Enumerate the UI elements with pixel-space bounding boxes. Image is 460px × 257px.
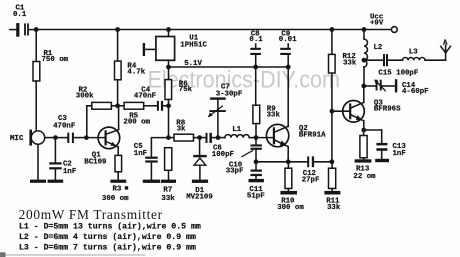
svg-text:27pF: 27pF — [302, 176, 320, 184]
ground (R3) — [110, 180, 126, 183]
svg-text:R7: R7 — [163, 187, 172, 195]
node junction C1/R1 — [34, 27, 39, 32]
scan artifact bottom edge — [0, 252, 146, 257]
resistor R8 — [169, 134, 200, 141]
label R12 value — [343, 53, 357, 67]
node junction L1/R9/C10/Q2 base — [254, 135, 259, 140]
node junction U1/5.1V rail — [166, 65, 171, 70]
svg-text:5.1V: 5.1V — [184, 60, 202, 68]
label C7 value — [216, 84, 243, 99]
node junction C8/R9/5.1V — [253, 65, 258, 70]
wire Q2 emitter down — [287, 147, 289, 162]
resistor R3 — [115, 155, 122, 179]
label R1 value — [42, 50, 69, 64]
wire Q1 emitter down — [117, 147, 119, 156]
watermark Electronics-DIY.com — [148, 67, 341, 94]
resistor R9 — [253, 67, 260, 138]
svg-text:0.1: 0.1 — [249, 36, 263, 44]
node junction R6/row2 — [166, 135, 171, 140]
node junction C10/C11/row3 — [254, 159, 259, 164]
svg-text:BFR96S: BFR96S — [374, 106, 401, 114]
ground (D1) — [192, 180, 208, 183]
label R6 value — [179, 81, 193, 94]
svg-text:33k: 33k — [161, 195, 175, 203]
node junction L2/top rail — [362, 27, 367, 32]
wire Q1 collector up — [118, 106, 120, 130]
label C10 value — [226, 162, 244, 176]
svg-text:C15 100pF: C15 100pF — [378, 69, 418, 77]
svg-text:300 om: 300 om — [277, 204, 304, 212]
label Q1 BC109 — [84, 151, 106, 166]
label C8 value — [249, 31, 263, 45]
label R2 value — [76, 87, 94, 101]
ground (R7) — [161, 180, 176, 183]
label R4 value — [127, 63, 145, 77]
ground (R10) — [280, 191, 297, 195]
svg-text:470nF: 470nF — [134, 93, 156, 101]
node junction L2/C14/Q3 collector — [361, 84, 366, 89]
resistor R2 — [92, 102, 112, 109]
capacitor C4 — [144, 101, 169, 111]
label U1 1PH51C — [180, 35, 207, 50]
svg-text:A: A — [443, 39, 448, 47]
label C11 value — [247, 186, 265, 201]
label C2 value — [63, 161, 76, 176]
resistor R11 — [329, 162, 336, 191]
svg-text:L2: L2 — [374, 44, 383, 52]
svg-text:1nF: 1nF — [63, 168, 76, 176]
node junction U1/top rail — [166, 27, 171, 32]
resistor R1 — [33, 30, 40, 132]
wire top +9V rail — [36, 29, 391, 31]
label C15 value — [378, 69, 418, 77]
wire R2 riser — [87, 106, 92, 138]
label R10 value — [277, 197, 304, 212]
inductor L3 — [403, 57, 446, 60]
svg-text:0.01: 0.01 — [279, 36, 297, 44]
ground (R13) — [355, 159, 372, 162]
node junction R2/R4/R5/Q1 collector — [115, 103, 120, 108]
wire MIC to ground — [37, 144, 39, 179]
transistor Q2 — [266, 124, 288, 146]
capacitor C14 trimmer — [364, 79, 398, 92]
label Ucc +9V — [370, 14, 384, 28]
wire R2 to R5 — [111, 105, 124, 107]
wire R12/R11 column — [331, 73, 333, 162]
svg-text:750 om: 750 om — [42, 56, 69, 64]
svg-text:1nF: 1nF — [134, 150, 147, 158]
svg-text:51pF: 51pF — [247, 193, 265, 201]
wire Q2 base — [256, 137, 273, 139]
label C3 value — [53, 115, 75, 130]
label R13 value — [353, 166, 376, 182]
svg-text:R3: R3 — [113, 185, 122, 193]
label R5 value — [123, 112, 150, 126]
label 5.1V — [184, 60, 202, 68]
svg-text:3-30pF: 3-30pF — [216, 91, 243, 99]
svg-text:200mW FM Transmitter: 200mW FM Transmitter — [19, 207, 163, 222]
ground (R11) — [324, 191, 340, 195]
label Q3 BFR96S — [374, 100, 401, 114]
label Q2 BFR91A — [299, 125, 326, 139]
capacitor C10 — [251, 138, 262, 162]
ground (MIC) — [30, 180, 46, 183]
label C9 value — [279, 31, 297, 45]
wire 5.1V rail — [169, 66, 289, 68]
label L2 — [374, 44, 383, 52]
label C5 value — [134, 143, 147, 158]
note L3 winding — [19, 243, 196, 253]
label L1 — [232, 126, 241, 134]
transistor Q1 — [98, 127, 120, 149]
svg-text:3k: 3k — [177, 125, 186, 133]
resistor R4 — [115, 30, 122, 106]
svg-text:33k: 33k — [267, 112, 281, 120]
label R11 value — [326, 197, 341, 212]
label C1 value — [13, 5, 27, 19]
capacitor C13 — [364, 130, 388, 159]
svg-text:BFR91A: BFR91A — [299, 132, 326, 140]
node junction R4/top rail — [115, 27, 120, 32]
label L3 — [409, 49, 418, 57]
svg-text:1PH51C: 1PH51C — [180, 41, 207, 49]
ground (C13) — [375, 159, 389, 162]
capacitor C1 (input) — [10, 23, 36, 37]
svg-text:470nF: 470nF — [53, 122, 75, 130]
ground (C11) — [249, 179, 264, 182]
node junction Q2 emitter/R10 — [286, 159, 291, 164]
resistor R5 — [124, 102, 144, 109]
svg-text:L2 - D=6mm 4 turns (air),wire: L2 - D=6mm 4 turns (air),wire 0.9 mm — [19, 232, 196, 242]
note L2 winding — [19, 232, 196, 242]
note L1 winding — [19, 222, 201, 232]
node junction L2 tap — [362, 58, 367, 63]
inductor L1 — [218, 135, 256, 138]
leader line C10 label — [242, 151, 253, 157]
antenna A — [441, 45, 451, 60]
capacitor C9 — [280, 44, 291, 67]
node junction C3/R2/Q1 base — [84, 135, 89, 140]
node junction R12/top rail — [330, 27, 335, 32]
svg-text:BC109: BC109 — [84, 158, 106, 166]
svg-text:+9V: +9V — [370, 20, 384, 28]
label R9 value — [267, 106, 281, 120]
label R3 value — [102, 185, 129, 203]
resistor R13 — [360, 130, 367, 159]
ground (C5) — [143, 180, 160, 183]
label C4 value — [134, 86, 156, 100]
svg-text:75k: 75k — [179, 86, 193, 94]
svg-text:1nF: 1nF — [393, 150, 406, 158]
svg-text:300 om: 300 om — [102, 195, 129, 203]
inductor L2 — [364, 30, 368, 87]
svg-text:L1 - D=5mm 13 turns (air),wire: L1 - D=5mm 13 turns (air),wire 0.5 mm — [19, 222, 201, 232]
svg-text:MV2109: MV2109 — [186, 193, 213, 201]
capacitor C15 — [364, 54, 403, 66]
label C6 value — [212, 145, 234, 159]
node junction C6/C7/L1 — [216, 135, 221, 140]
wire base node to Q1 — [86, 137, 105, 139]
capacitor C3 — [55, 133, 86, 143]
label C14 value — [402, 82, 429, 96]
svg-text:Electronics-DIY.com: Electronics-DIY.com — [148, 67, 341, 94]
terminal Ucc +9V — [391, 27, 397, 33]
label C12 value — [302, 170, 320, 185]
svg-text:MIC: MIC — [10, 135, 24, 143]
node junction R12/Q3 base — [330, 109, 335, 114]
node junction MIC/C2/C3 — [53, 135, 58, 140]
wire Q3 emitter down — [363, 121, 365, 130]
svg-text:0.1: 0.1 — [13, 11, 27, 19]
title 200mW FM Transmitter — [19, 207, 163, 222]
node junction C12/R11 — [330, 159, 335, 164]
label D1 MV2109 — [186, 187, 213, 202]
capacitor C2 — [49, 138, 62, 180]
capacitor C8 — [250, 44, 261, 67]
node junction C4/R6 — [166, 103, 171, 108]
wire Q3 collector up — [363, 86, 365, 102]
svg-text:4.7k: 4.7k — [127, 68, 145, 76]
label A — [443, 39, 448, 47]
IC U1 1PH51C — [143, 30, 175, 68]
capacitor C12 — [307, 156, 332, 167]
node junction C9/Q2 collector/5.1V — [286, 65, 291, 70]
capacitor C6 — [200, 133, 218, 143]
node junction Q3 emitter/R13/C13 — [361, 128, 366, 133]
svg-text:33k: 33k — [343, 59, 357, 67]
resistor R12 — [329, 30, 336, 74]
svg-text:100pF: 100pF — [212, 151, 234, 159]
wire Q3 base — [332, 110, 349, 112]
svg-text:L3 - D=6mm 7 turns (air),wire: L3 - D=6mm 7 turns (air),wire 0.9 mm — [19, 243, 196, 253]
svg-text:4-60pF: 4-60pF — [402, 88, 429, 96]
capacitor C7 trimmer — [208, 97, 226, 137]
label C13 value — [393, 143, 407, 158]
label MIC — [10, 135, 24, 143]
label R7 value — [161, 187, 175, 203]
svg-text:300k: 300k — [76, 92, 94, 100]
svg-text:200 om: 200 om — [123, 118, 150, 126]
capacitor C5 — [145, 138, 168, 180]
node junction R8/D1/C6 — [197, 135, 202, 140]
diode D1 varicap — [193, 138, 206, 180]
resistor R6 — [165, 67, 172, 138]
label R8 value — [176, 120, 186, 134]
ground (C2) — [48, 180, 64, 183]
wire row3 emitter bus — [256, 161, 307, 163]
wire Q2 collector up — [287, 67, 289, 126]
svg-text:33pF: 33pF — [226, 167, 244, 175]
svg-text:L1: L1 — [232, 126, 241, 134]
microphone MIC — [29, 130, 55, 146]
transistor Q3 — [343, 101, 365, 123]
svg-text:22 om: 22 om — [353, 173, 376, 181]
svg-text:L3: L3 — [409, 49, 418, 57]
svg-text:33k: 33k — [327, 204, 341, 212]
resistor R10 — [285, 162, 292, 191]
resistor R7 — [165, 148, 172, 180]
capacitor C11 — [251, 162, 262, 179]
